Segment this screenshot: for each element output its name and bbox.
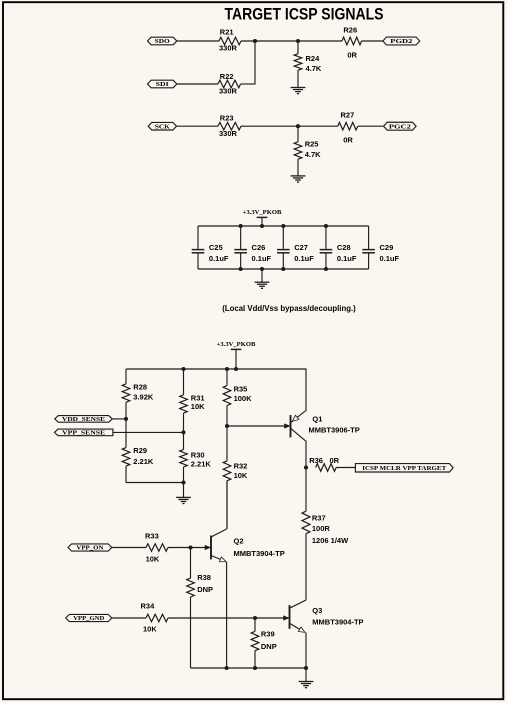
- svg-text:2.21K: 2.21K: [133, 457, 154, 466]
- svg-text:Q3: Q3: [312, 606, 322, 615]
- svg-text:R21: R21: [220, 28, 234, 37]
- capacitor C25: [192, 226, 229, 269]
- resistor R38: [187, 548, 213, 669]
- node VDD_SENSE flag: [55, 416, 113, 423]
- svg-text:0R: 0R: [330, 456, 340, 465]
- resistor R35: [223, 369, 252, 461]
- node SDI flag: [148, 80, 177, 88]
- wire: [358, 125, 384, 127]
- svg-text:SDO: SDO: [155, 39, 170, 45]
- svg-text:0.1uF: 0.1uF: [294, 254, 314, 263]
- svg-text:MMBT3906-TP: MMBT3906-TP: [309, 426, 360, 435]
- wire bottom rail: [198, 268, 369, 270]
- ground: [291, 88, 306, 94]
- svg-text:1206 1/4W: 1206 1/4W: [312, 536, 349, 545]
- resistor R31: [180, 369, 205, 450]
- svg-text:PGC2: PGC2: [389, 124, 411, 130]
- svg-text:C29: C29: [380, 243, 394, 252]
- ground: [255, 269, 270, 288]
- svg-text:0R: 0R: [347, 51, 357, 60]
- svg-text:+3.3V_PKOB: +3.3V_PKOB: [243, 209, 282, 216]
- wire: [113, 431, 184, 433]
- wire: [241, 40, 342, 42]
- svg-text:R29: R29: [133, 446, 147, 455]
- svg-text:C27: C27: [294, 243, 308, 252]
- capacitor C26: [234, 226, 271, 269]
- svg-text:VPP_GND: VPP_GND: [73, 616, 104, 622]
- wire: [305, 441, 307, 512]
- ground: [176, 483, 191, 504]
- capacitor C28: [320, 226, 357, 269]
- resistor R23: [218, 113, 241, 137]
- svg-text:330R: 330R: [219, 43, 238, 52]
- svg-text:R23: R23: [220, 113, 234, 122]
- capacitor C27: [277, 226, 314, 269]
- svg-text:C28: C28: [337, 243, 351, 252]
- node junctions bottom rail: [239, 267, 328, 271]
- node junction: [181, 480, 185, 484]
- wire: [241, 125, 338, 127]
- wire: [112, 547, 146, 549]
- svg-text:R26: R26: [343, 26, 357, 35]
- svg-text:Q2: Q2: [234, 536, 244, 545]
- svg-text:0.1uF: 0.1uF: [337, 254, 357, 263]
- svg-text:R35: R35: [234, 384, 248, 393]
- svg-text:R36: R36: [309, 456, 323, 465]
- wire: [362, 40, 383, 42]
- svg-text:R33: R33: [145, 532, 159, 541]
- svg-text:SCK: SCK: [155, 124, 170, 130]
- svg-text:DNP: DNP: [197, 585, 213, 594]
- node junction: [181, 367, 185, 371]
- svg-text:(Local Vdd/Vss bypass/decoupli: (Local Vdd/Vss bypass/decoupling.): [222, 304, 356, 313]
- node ICSP_MCLR_VPP_TARGET flag: [355, 464, 453, 472]
- svg-text:4.7K: 4.7K: [306, 64, 322, 73]
- svg-text:R25: R25: [305, 140, 319, 149]
- svg-text:MMBT3904-TP: MMBT3904-TP: [234, 549, 285, 558]
- transistor Q2: [205, 529, 285, 562]
- node junction: [253, 616, 257, 620]
- svg-text:0.1uF: 0.1uF: [209, 254, 229, 263]
- node junction: [225, 424, 229, 428]
- wire: [126, 482, 184, 484]
- node junctions top rail: [239, 224, 328, 228]
- resistor R36: [309, 456, 339, 471]
- svg-text:R32: R32: [234, 461, 248, 470]
- svg-text:2.21K: 2.21K: [191, 460, 212, 469]
- svg-text:R34: R34: [141, 602, 156, 611]
- resistor R33: [145, 532, 168, 564]
- node VPP_ON flag: [68, 544, 112, 552]
- wire: [177, 40, 219, 42]
- node junction: [181, 430, 185, 434]
- ground: [299, 668, 314, 688]
- svg-text:VPP_ON: VPP_ON: [76, 546, 104, 552]
- resistor R29: [122, 446, 154, 482]
- resistor R30: [180, 450, 212, 483]
- wire top rail: [126, 368, 306, 370]
- resistor R27: [338, 110, 358, 144]
- wire: [305, 633, 307, 669]
- resistor R25: [294, 126, 321, 176]
- svg-text:TARGET ICSP SIGNALS: TARGET ICSP SIGNALS: [225, 6, 384, 24]
- svg-text:0.1uF: 0.1uF: [252, 254, 272, 263]
- power +3.3V_PKOB: [217, 341, 256, 369]
- svg-text:0.1uF: 0.1uF: [380, 254, 400, 263]
- svg-text:PGD2: PGD2: [390, 39, 412, 45]
- resistor R32: [223, 461, 248, 528]
- wire: [177, 125, 219, 127]
- node junction: [296, 124, 300, 128]
- wire: [168, 547, 210, 549]
- svg-text:330R: 330R: [219, 87, 238, 96]
- node SCK flag: [148, 122, 176, 130]
- node PGD2 flag: [383, 37, 420, 45]
- svg-text:R39: R39: [261, 629, 275, 638]
- svg-text:100K: 100K: [234, 394, 253, 403]
- svg-text:10K: 10K: [191, 402, 205, 411]
- svg-text:10K: 10K: [146, 554, 160, 563]
- node junction: [296, 39, 300, 43]
- svg-text:3.92K: 3.92K: [133, 393, 154, 402]
- wire: [168, 617, 288, 619]
- svg-text:R30: R30: [191, 450, 205, 459]
- resistor R21: [219, 28, 241, 53]
- node VPP_SENSE flag: [54, 429, 113, 436]
- wire: [241, 41, 255, 85]
- node junction: [253, 39, 257, 43]
- resistor R24: [294, 41, 322, 87]
- wire: [226, 481, 228, 529]
- svg-text:4.7K: 4.7K: [305, 150, 321, 159]
- svg-text:C26: C26: [252, 243, 266, 252]
- svg-text:R28: R28: [133, 382, 147, 391]
- node junction: [225, 666, 229, 670]
- wire: [112, 617, 146, 619]
- power +3.3V_PKOB: [243, 209, 282, 226]
- node junction: [304, 666, 308, 670]
- resistor R37: [302, 511, 349, 600]
- svg-text:VDD_SENSE: VDD_SENSE: [62, 417, 105, 423]
- svg-text:R22: R22: [220, 72, 234, 81]
- svg-text:C25: C25: [209, 243, 223, 252]
- node VPP_GND flag: [66, 614, 112, 622]
- svg-text:10K: 10K: [234, 471, 248, 480]
- ground: [291, 176, 306, 182]
- node PGC2 flag: [384, 122, 417, 130]
- node junction: [188, 545, 192, 549]
- transistor Q3: [284, 600, 364, 632]
- wire: [226, 562, 228, 668]
- svg-text:R38: R38: [197, 573, 211, 582]
- svg-text:Q1: Q1: [312, 415, 322, 424]
- node SDO flag: [148, 37, 177, 45]
- title: [225, 6, 384, 24]
- svg-text:R27: R27: [341, 110, 355, 119]
- resistor R39: [251, 618, 277, 668]
- wire: [112, 418, 126, 420]
- node junction: [234, 367, 238, 371]
- svg-text:0R: 0R: [343, 136, 353, 145]
- transistor Q1: [227, 411, 360, 441]
- wire top rail: [198, 225, 369, 227]
- node junction: [304, 465, 308, 469]
- resistor R28: [122, 369, 154, 448]
- svg-text:R24: R24: [306, 54, 321, 63]
- node junction: [253, 666, 257, 670]
- svg-text:SDI: SDI: [156, 82, 170, 88]
- svg-text:DNP: DNP: [261, 642, 277, 651]
- wire: [177, 83, 218, 85]
- svg-text:MMBT3904-TP: MMBT3904-TP: [312, 617, 363, 626]
- svg-text:VPP_SENSE: VPP_SENSE: [62, 431, 105, 437]
- resistor R26: [342, 26, 362, 60]
- node junction: [124, 417, 128, 421]
- wire bottom rail: [191, 667, 307, 669]
- svg-text:100R: 100R: [312, 524, 331, 533]
- svg-text:10K: 10K: [143, 625, 157, 634]
- node junction: [225, 367, 229, 371]
- wire: [336, 467, 355, 469]
- svg-text:ICSP MCLR VPP TARGET: ICSP MCLR VPP TARGET: [362, 465, 447, 472]
- resistor R34: [141, 602, 169, 634]
- resistor R22: [218, 72, 241, 96]
- wire: [305, 369, 307, 412]
- svg-text:R37: R37: [312, 514, 326, 523]
- capacitor C29: [362, 226, 399, 269]
- svg-text:+3.3V_PKOB: +3.3V_PKOB: [217, 341, 256, 348]
- caption: [222, 304, 356, 313]
- svg-text:330R: 330R: [219, 129, 238, 138]
